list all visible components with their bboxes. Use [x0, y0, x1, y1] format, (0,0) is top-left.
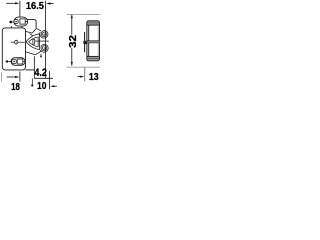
svg-text:32: 32	[68, 35, 79, 48]
svg-text:13: 13	[89, 72, 99, 83]
svg-text:16.5: 16.5	[26, 1, 44, 12]
svg-text:18: 18	[11, 82, 20, 93]
svg-text:4.2: 4.2	[34, 67, 47, 79]
svg-text:10: 10	[37, 81, 47, 92]
